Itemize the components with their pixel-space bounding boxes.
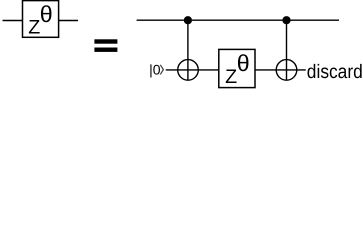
svg-text:Z: Z [225,66,237,88]
svg-text:|0: |0 [149,62,161,78]
svg-text:θ: θ [237,50,250,76]
svg-text:Z: Z [28,16,40,38]
svg-text:θ: θ [40,1,53,27]
svg-text:discard: discard [307,61,363,83]
